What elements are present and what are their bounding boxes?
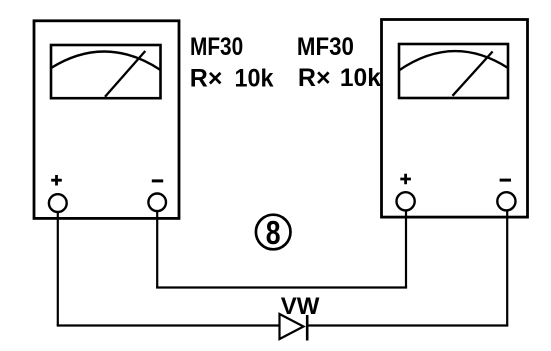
svg-text:R×: R× — [190, 65, 223, 93]
plus terminal post P1 — [49, 194, 67, 212]
svg-text:VW: VW — [281, 293, 320, 320]
svg-text:10k: 10k — [340, 64, 381, 92]
svg-text:10k: 10k — [235, 65, 274, 93]
minus terminal post P1 — [148, 194, 166, 212]
wire: P2 plus up — [405, 211, 407, 288]
wire: P2 minus down — [506, 210, 508, 325]
wire: bottom horizontal left to diode anode — [57, 324, 280, 326]
wire: P1 minus down — [156, 211, 158, 288]
svg-text:MF30: MF30 — [190, 33, 243, 61]
meter scale arc P1 — [51, 51, 161, 70]
meter needle P1 — [105, 51, 145, 97]
plus terminal label P2 — [400, 174, 411, 185]
wire: diode cathode to bottom right — [307, 324, 508, 326]
svg-text:MF30: MF30 — [297, 33, 354, 61]
multimeter P2 body (right) — [382, 20, 528, 218]
wire: middle horizontal P1 minus to P2 plus — [156, 286, 407, 288]
wire: P1 plus down — [57, 212, 59, 326]
plus terminal label P1 — [51, 175, 62, 186]
multimeter P1 body (left) — [34, 21, 179, 219]
plus terminal post P2 — [397, 192, 415, 210]
minus terminal label P2 — [500, 179, 511, 182]
minus terminal label P1 — [152, 179, 163, 182]
meter display window P1 — [51, 45, 161, 98]
svg-text:8: 8 — [266, 215, 281, 252]
meter needle P2 — [453, 52, 493, 96]
figure number circle — [256, 215, 291, 250]
diode VD anode triangle — [280, 314, 304, 339]
minus terminal post P2 — [497, 192, 515, 210]
svg-text:R×: R× — [298, 64, 331, 92]
meter scale arc P2 — [399, 51, 508, 70]
diode VD cathode bar — [306, 315, 309, 341]
meter display window P2 — [399, 44, 508, 98]
